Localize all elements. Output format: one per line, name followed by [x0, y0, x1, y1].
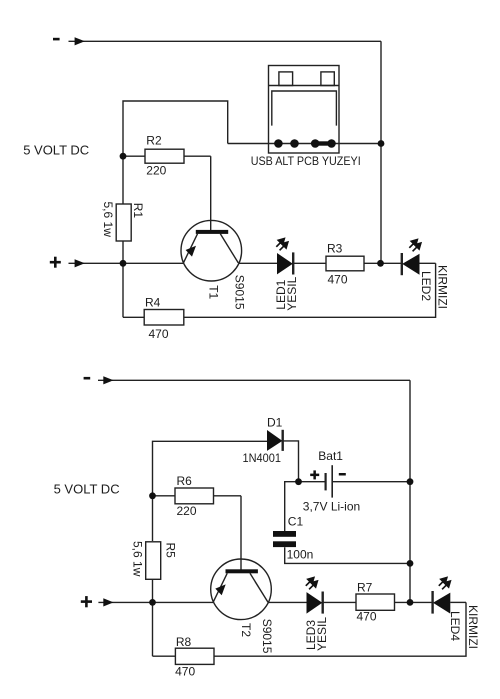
svg-text:R2: R2 — [146, 134, 162, 148]
svg-text:LED4: LED4 — [448, 611, 462, 641]
svg-text:470: 470 — [149, 327, 169, 341]
svg-text:C1: C1 — [288, 514, 304, 528]
svg-text:LED2: LED2 — [419, 271, 433, 301]
svg-text:R6: R6 — [177, 474, 193, 488]
svg-text:YESIL: YESIL — [315, 617, 329, 651]
svg-text:470: 470 — [357, 610, 377, 624]
svg-text:5 VOLT DC: 5 VOLT DC — [23, 143, 89, 158]
svg-text:D1: D1 — [267, 416, 283, 430]
svg-text:KIRMIZI: KIRMIZI — [466, 605, 480, 649]
svg-text:R8: R8 — [176, 635, 192, 649]
svg-text:470: 470 — [328, 273, 348, 287]
svg-text:1N4001: 1N4001 — [243, 451, 282, 465]
svg-text:USB ALT PCB YUZEYI: USB ALT PCB YUZEYI — [251, 154, 361, 168]
svg-text:5,6 1w: 5,6 1w — [131, 541, 145, 577]
svg-text:KIRMIZI: KIRMIZI — [436, 265, 450, 309]
svg-text:T2: T2 — [239, 623, 253, 637]
svg-text:Bat1: Bat1 — [318, 449, 343, 463]
svg-text:5 VOLT DC: 5 VOLT DC — [54, 481, 120, 496]
svg-text:S9015: S9015 — [260, 619, 274, 654]
svg-text:YESIL: YESIL — [285, 276, 299, 310]
svg-text:R4: R4 — [145, 295, 161, 309]
svg-text:100n: 100n — [287, 548, 314, 562]
svg-text:R1: R1 — [131, 203, 145, 219]
svg-text:220: 220 — [177, 504, 197, 518]
svg-text:R7: R7 — [357, 581, 373, 595]
svg-text:470: 470 — [175, 664, 195, 678]
svg-text:S9015: S9015 — [233, 275, 247, 310]
svg-text:T1: T1 — [206, 285, 220, 299]
svg-text:R5: R5 — [163, 543, 177, 559]
svg-text:R3: R3 — [327, 241, 343, 255]
svg-text:220: 220 — [146, 163, 166, 177]
svg-text:3,7V Li-ion: 3,7V Li-ion — [303, 499, 360, 513]
svg-text:5,6 1w: 5,6 1w — [101, 202, 115, 238]
